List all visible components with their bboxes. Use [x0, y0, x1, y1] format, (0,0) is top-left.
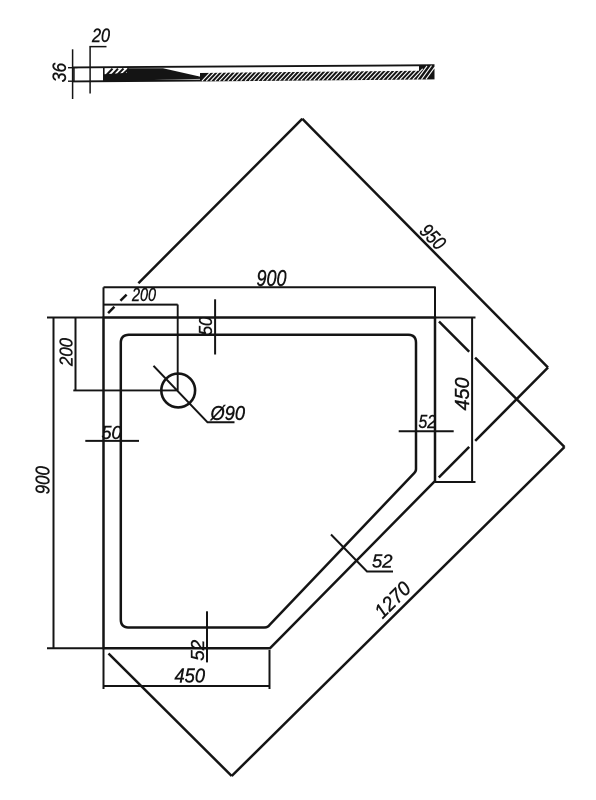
dim 450 bottom line: [104, 685, 270, 687]
svg-text:52: 52: [419, 411, 437, 432]
dim 50 left line: [85, 440, 139, 442]
section hatch zone A black slashes: [106, 69, 130, 76]
corner square upper-left edge dash 1: [120, 295, 126, 301]
dim 52 bottom line: [206, 611, 208, 662]
rotated rect upper-right edge part 2: [475, 358, 564, 447]
rotated rect lower-left edge: [109, 654, 232, 777]
svg-text:52: 52: [187, 639, 208, 661]
cut edge extension to corner vertex part 1: [439, 447, 469, 478]
top edge right extension: [435, 317, 476, 319]
dim 200 left line: [75, 318, 77, 391]
rotated rect edge 1270: [232, 447, 565, 776]
dim 450 bottom right extension: [269, 650, 271, 689]
svg-text:52: 52: [372, 551, 393, 572]
svg-text:20: 20: [91, 26, 110, 47]
corner square upper-right edge 950: [302, 119, 548, 368]
svg-text:900: 900: [257, 265, 287, 291]
cut edge extension to corner vertex part 2: [475, 368, 548, 441]
svg-text:Ø90: Ø90: [210, 403, 245, 425]
leader 52 mid: [331, 535, 393, 572]
section right tip D: [419, 65, 435, 79]
dim 200 top line: [104, 304, 178, 306]
section hatched band C: [200, 71, 419, 81]
svg-text:900: 900: [33, 466, 55, 494]
svg-text:50: 50: [102, 422, 123, 443]
dim 36 line: [72, 49, 74, 99]
dim 50 top line: [214, 299, 216, 354]
dim 36 tick top: [68, 67, 78, 69]
section floor line: [155, 76, 198, 78]
section hatch zone A lower band: [105, 73, 128, 81]
section solid wedge: [127, 68, 200, 81]
dim 900 top right extension: [434, 287, 436, 318]
dim 450 bottom left extension: [103, 648, 105, 689]
corner square upper-left edge dash 2: [108, 307, 114, 313]
svg-text:50: 50: [195, 316, 216, 335]
drain circle: [161, 374, 195, 408]
section band white hatching: [202, 65, 436, 81]
top edge left extension: [47, 317, 104, 319]
svg-text:200: 200: [56, 337, 77, 367]
tray outer outline: [104, 318, 436, 649]
svg-text:450: 450: [452, 378, 474, 411]
svg-text:200: 200: [131, 285, 156, 305]
dim 450 right line: [471, 318, 473, 483]
rotated rect upper-right edge part 1: [439, 322, 469, 352]
leader O90: [154, 366, 235, 423]
dim 900 top left extension: [103, 287, 105, 317]
bottom edge left extension: [47, 647, 104, 649]
dim 20 extension vertical: [89, 46, 91, 93]
section profile left end cap: [73, 67, 75, 82]
dim 900 left line: [53, 318, 55, 649]
section rim box right wall: [103, 68, 105, 81]
svg-text:36: 36: [50, 62, 71, 82]
section profile top surface line: [73, 65, 435, 67]
corner square upper-left edge: [138, 119, 302, 283]
dim 52 right line: [399, 430, 454, 432]
dim 20 line horizontal: [89, 46, 106, 48]
dim 900 top line: [104, 286, 436, 288]
drain vertical centerline: [177, 305, 179, 391]
corner right extension: [435, 481, 476, 483]
svg-text:450: 450: [175, 665, 206, 687]
drain horizontal centerline: [73, 389, 178, 391]
tray inner outline: [121, 335, 416, 628]
section profile bottom surface line: [73, 78, 435, 81]
dim 36 tick bottom: [68, 80, 78, 82]
